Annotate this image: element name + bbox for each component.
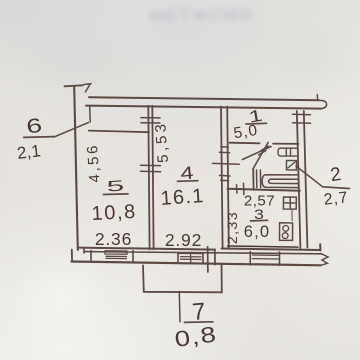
tick on left wall: [89, 107, 92, 122]
svg-text:2,33: 2,33: [224, 211, 240, 244]
underline label 6: [24, 136, 54, 139]
bathroom door diagonal: [253, 142, 268, 168]
tick pair on right wall: [293, 114, 311, 123]
svg-text:5,53: 5,53: [152, 120, 172, 163]
wall room5/room4 line b: [152, 106, 153, 250]
window room 5: [91, 251, 133, 263]
wall right outer line a: [297, 111, 301, 248]
watermark stamp: [150, 5, 262, 35]
svg-text:2.92: 2.92: [165, 230, 202, 250]
closet 6 bottom wall: [89, 131, 149, 133]
kitchen window verticals: [250, 252, 279, 266]
T-cap at left wall top: [65, 85, 83, 86]
wall room4/hall line b: [227, 107, 229, 249]
leader to label 7: [178, 292, 181, 322]
underline label 3: [251, 219, 268, 222]
left bottom corner stub: [71, 250, 73, 262]
window 4 mid tick: [190, 254, 192, 264]
fraction line label 2: [323, 187, 350, 189]
ticks on wall 4/hall: [213, 147, 240, 181]
svg-text:5: 5: [106, 178, 125, 196]
svg-text:4: 4: [180, 163, 195, 184]
underline label 5: [104, 193, 129, 196]
small wall pair left of bathtub: [257, 170, 261, 188]
kitchen sink: [283, 197, 296, 209]
tick at kitchen wall left end: [236, 185, 238, 193]
tick pair lower on wall 5/4: [141, 165, 161, 172]
underline label 1: [246, 122, 267, 125]
pipe bar: [291, 211, 293, 221]
kitchen floor second line: [228, 246, 299, 247]
tick at right wall bottom: [304, 249, 315, 252]
tick above top wall right end: [316, 95, 318, 100]
hall 1 south wall segment: [230, 142, 260, 145]
svg-text:16.1: 16.1: [160, 185, 206, 210]
svg-text:6,0: 6,0: [244, 223, 271, 241]
tick vertical at x244: [243, 183, 245, 194]
underline label 4: [178, 180, 199, 183]
stove: [280, 223, 293, 241]
svg-text:0,8: 0,8: [173, 322, 219, 352]
svg-text:6: 6: [25, 114, 44, 138]
svg-text:5,0: 5,0: [233, 122, 260, 142]
door hash marks: [259, 146, 269, 155]
leader to label 2: [296, 166, 322, 186]
svg-text:7: 7: [191, 298, 207, 326]
svg-text:4,56: 4,56: [84, 142, 104, 183]
band top line: [84, 252, 322, 254]
bathroom left wall: [252, 169, 254, 191]
svg-text:3: 3: [254, 207, 264, 223]
slash tick at left wall top: [84, 84, 92, 92]
window 4 glazing: [181, 257, 202, 260]
break zigzag bottom right: [321, 254, 328, 265]
bathtub: [262, 175, 298, 188]
wall: top inner: [86, 106, 321, 109]
bathroom top wall: [273, 143, 299, 145]
wall: left outer: [74, 86, 78, 250]
balcony outline: [143, 264, 222, 293]
svg-text:10,8: 10,8: [91, 201, 137, 225]
svg-text:2.36: 2.36: [95, 229, 132, 249]
crossing diagonal stroke: [243, 147, 272, 160]
toilet: [286, 161, 296, 171]
svg-text:2,7: 2,7: [323, 189, 349, 208]
kitchen top wall (2.57): [228, 189, 300, 191]
window room 4: [178, 253, 203, 263]
kitchen window glazing: [253, 255, 279, 259]
underline label 7: [185, 321, 214, 324]
leader to label 6: [54, 123, 89, 138]
bath sink: [278, 148, 297, 156]
wall room4/hall line a: [221, 107, 223, 249]
wall room5/room4 line a: [148, 106, 149, 250]
floor line (bottom inner): [79, 244, 321, 250]
svg-text:2,1: 2,1: [16, 141, 42, 163]
wall: top outer: [89, 97, 319, 100]
window 5 glazing: [105, 251, 127, 259]
break curl at top-right wall end: [319, 100, 327, 108]
bottom outer wall line: [72, 262, 321, 266]
stove burners: [283, 226, 289, 232]
balcony door tick: [208, 247, 215, 272]
svg-text:2: 2: [329, 164, 342, 186]
wall right outer line b: [304, 111, 308, 248]
paper blotches: [20, 30, 140, 100]
tick pair upper on wall 5/4: [141, 118, 160, 123]
inner corner stub left: [83, 248, 85, 253]
